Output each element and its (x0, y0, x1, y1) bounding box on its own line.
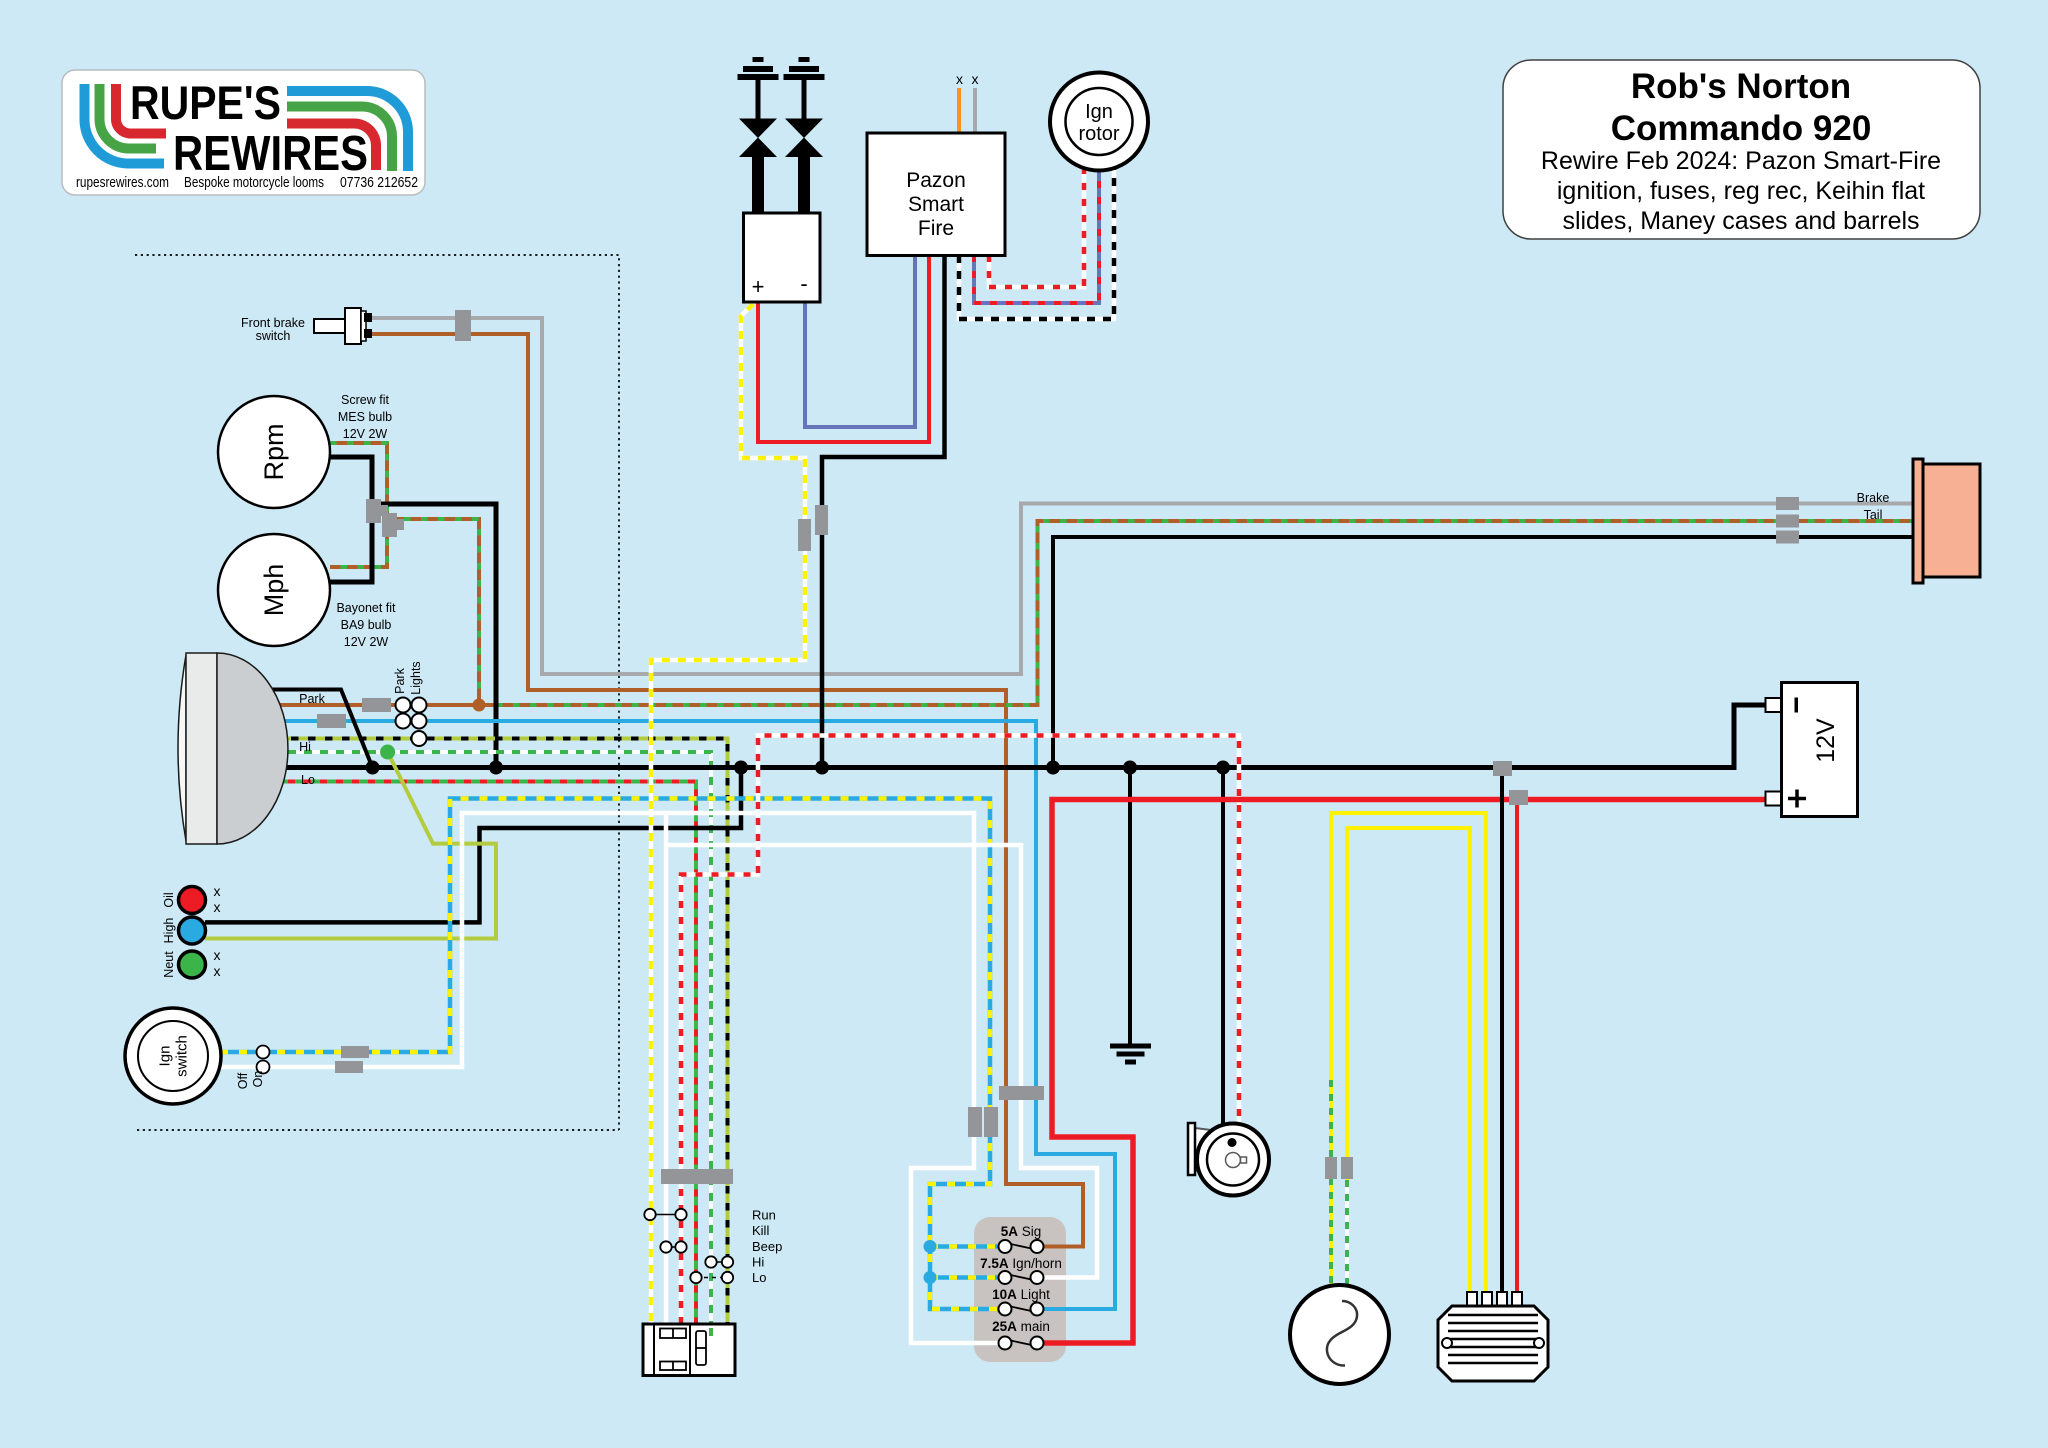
svg-text:MES bulb: MES bulb (338, 410, 392, 424)
svg-text:Rob's Norton: Rob's Norton (1631, 67, 1851, 106)
svg-text:Ign: Ign (157, 1046, 174, 1067)
svg-text:Bespoke motorcycle looms: Bespoke motorcycle looms (184, 175, 324, 191)
svg-text:rotor: rotor (1078, 123, 1119, 145)
svg-text:Fire: Fire (918, 217, 954, 240)
svg-text:Hi: Hi (299, 740, 311, 754)
svg-text:Oil: Oil (162, 892, 176, 907)
svg-text:Mph: Mph (259, 564, 289, 617)
svg-text:x: x (214, 963, 221, 979)
svg-text:Park: Park (393, 667, 407, 693)
svg-text:12V 2W: 12V 2W (343, 427, 388, 441)
svg-text:Bayonet fit: Bayonet fit (336, 601, 396, 615)
svg-text:12V 2W: 12V 2W (344, 635, 389, 649)
svg-text:Lo: Lo (752, 1270, 766, 1285)
svg-text:Lights: Lights (409, 661, 423, 694)
svg-text:x: x (214, 899, 221, 915)
svg-text:-: - (800, 271, 807, 296)
svg-text:Front brake: Front brake (241, 316, 305, 330)
svg-text:switch: switch (256, 329, 291, 343)
svg-text:Rpm: Rpm (259, 423, 289, 480)
svg-text:Lo: Lo (301, 773, 315, 787)
svg-text:Brake: Brake (1857, 491, 1890, 505)
svg-text:Off: Off (236, 1072, 250, 1089)
svg-text:Pazon: Pazon (906, 169, 966, 192)
svg-text:7.5A Ign/horn: 7.5A Ign/horn (980, 1256, 1062, 1271)
svg-text:x: x (214, 883, 221, 899)
svg-text:07736 212652: 07736 212652 (340, 175, 418, 191)
svg-text:RUPE'S: RUPE'S (130, 76, 281, 129)
svg-text:Beep: Beep (752, 1239, 782, 1254)
svg-text:BA9 bulb: BA9 bulb (341, 618, 392, 632)
svg-text:Smart: Smart (908, 193, 964, 216)
svg-text:Hi: Hi (752, 1255, 764, 1270)
svg-text:REWIRES: REWIRES (173, 127, 368, 181)
svg-text:On: On (251, 1071, 265, 1088)
svg-text:switch: switch (174, 1035, 191, 1077)
svg-text:Rewire Feb 2024: Pazon Smart-F: Rewire Feb 2024: Pazon Smart-Fire (1541, 147, 1941, 175)
svg-text:slides, Maney cases and barrel: slides, Maney cases and barrels (1562, 207, 1919, 235)
svg-text:rupesrewires.com: rupesrewires.com (76, 175, 169, 191)
svg-text:Tail: Tail (1864, 508, 1883, 522)
svg-text:Neut: Neut (162, 951, 176, 978)
svg-text:Ign: Ign (1085, 101, 1113, 123)
svg-text:5A Sig: 5A Sig (1001, 1224, 1042, 1239)
svg-text:Kill: Kill (752, 1223, 769, 1238)
svg-text:x: x (214, 947, 221, 963)
svg-text:ignition, fuses, reg rec, Keih: ignition, fuses, reg rec, Keihin flat (1557, 177, 1925, 205)
svg-text:10A Light: 10A Light (992, 1287, 1050, 1302)
svg-text:Commando 920: Commando 920 (1611, 109, 1872, 148)
svg-text:x: x (956, 71, 963, 87)
svg-text:Run: Run (752, 1208, 776, 1223)
svg-text:12V: 12V (1812, 718, 1840, 763)
svg-text:Park: Park (299, 692, 325, 706)
svg-text:25A main: 25A main (992, 1319, 1050, 1334)
svg-text:Screw fit: Screw fit (341, 393, 389, 407)
svg-text:High: High (162, 918, 176, 944)
svg-text:+: + (752, 274, 765, 299)
svg-text:x: x (972, 71, 979, 87)
